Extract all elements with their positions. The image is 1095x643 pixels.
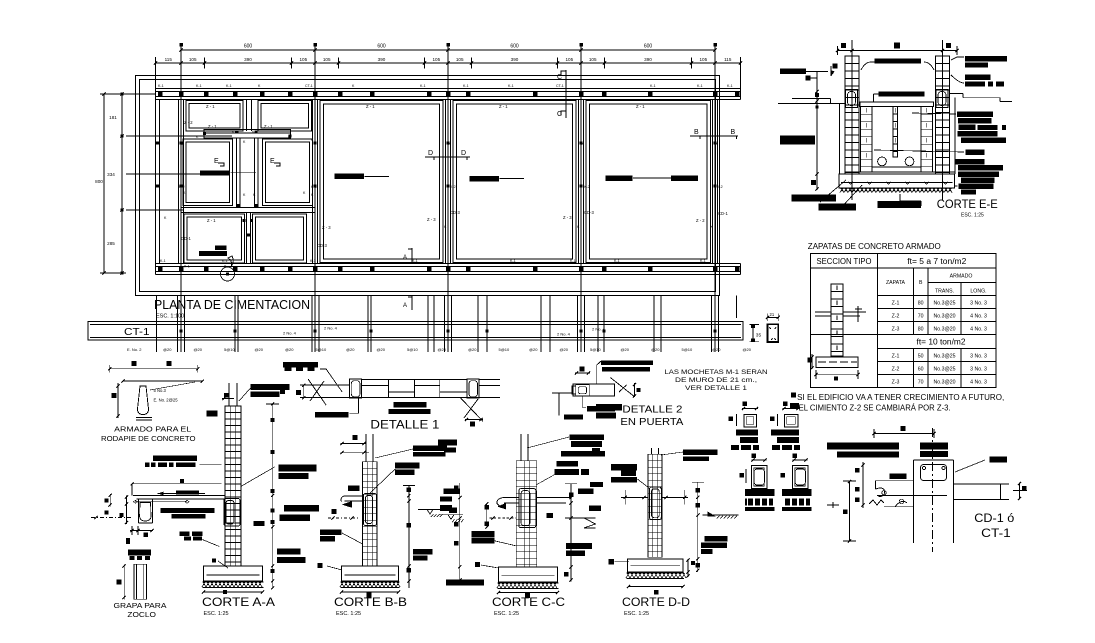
svg-text:RODAPIE DE CONCRETO: RODAPIE DE CONCRETO xyxy=(101,434,196,443)
svg-text:181: 181 xyxy=(109,115,117,120)
svg-text:115: 115 xyxy=(724,57,732,62)
svg-text:Z - 3: Z - 3 xyxy=(563,215,572,220)
svg-text:K-1: K-1 xyxy=(196,84,202,88)
corte AA rodapie spike xyxy=(140,503,151,522)
vertical dim line between B-B and C-C xyxy=(459,483,461,582)
cd-1 right bracket xyxy=(1019,483,1021,500)
corte AA bottom-mid labels xyxy=(180,531,190,536)
bay1 T wall horizontal xyxy=(204,130,291,139)
svg-text:No.3@25: No.3@25 xyxy=(934,301,956,307)
corte CC left labels xyxy=(471,531,494,537)
svg-text:ESC. 1:25: ESC. 1:25 xyxy=(204,611,229,617)
junction marks on axis walls K positions xyxy=(179,141,182,144)
svg-text:No.3@20: No.3@20 xyxy=(934,380,956,386)
axis lines thin xyxy=(180,44,182,352)
svg-text:K-1: K-1 xyxy=(184,265,190,269)
svg-text:ESC. 1:25: ESC. 1:25 xyxy=(336,611,361,617)
svg-text:A: A xyxy=(403,255,407,261)
corte BB level marks right xyxy=(418,509,442,511)
svg-text:5@10: 5@10 xyxy=(499,347,511,352)
svg-text:ESC. 1:25: ESC. 1:25 xyxy=(624,611,649,617)
corte DD junction cross dims xyxy=(621,496,648,498)
svg-text:CD-3: CD-3 xyxy=(317,243,327,248)
corte DD left marker xyxy=(608,559,614,565)
svg-text:CD-3: CD-3 xyxy=(450,210,460,215)
cd-1 center dashdot line xyxy=(932,428,934,552)
svg-text:@20: @20 xyxy=(194,347,203,352)
table row lines xyxy=(928,282,996,284)
cd-1 leader to label xyxy=(955,460,985,472)
corte BB footing xyxy=(341,566,398,581)
svg-text:No.3@20: No.3@20 xyxy=(934,313,956,319)
corte EE castillo blocks at ground xyxy=(846,90,858,108)
corte EE right pier above ground xyxy=(936,56,950,90)
CT-1 end beam section 21x35 xyxy=(768,324,779,342)
svg-text:5@10: 5@10 xyxy=(407,347,419,352)
svg-text:2 No. 4: 2 No. 4 xyxy=(557,332,571,337)
svg-text:390: 390 xyxy=(244,57,252,62)
svg-text:Z - 1: Z - 1 xyxy=(206,104,215,109)
svg-text:800: 800 xyxy=(95,179,103,184)
svg-text:CORTE C-C: CORTE C-C xyxy=(492,595,565,609)
svg-text:115: 115 xyxy=(165,57,173,62)
svg-text:@20: @20 xyxy=(438,347,447,352)
svg-text:ESC. 1:25: ESC. 1:25 xyxy=(961,213,984,219)
svg-text:Z - 3: Z - 3 xyxy=(427,217,436,222)
corte DD below dims xyxy=(629,586,684,588)
corte CC footing xyxy=(498,567,557,582)
corte EE piers below ground xyxy=(845,90,859,174)
section mark A-A in plan xyxy=(411,248,413,262)
svg-text:E: E xyxy=(270,158,275,165)
detalle 1 staggered courses xyxy=(361,385,388,387)
svg-text:GRAPA PARA: GRAPA PARA xyxy=(114,601,167,610)
svg-text:5@10: 5@10 xyxy=(316,347,328,352)
rodapie vertical dim xyxy=(117,383,119,418)
grapa dim line xyxy=(123,564,125,599)
rodapie armado detail dim lines xyxy=(110,368,198,370)
svg-text:CD-1 ó: CD-1 ó xyxy=(974,513,1014,525)
svg-text:EN PUERTA: EN PUERTA xyxy=(620,416,683,428)
svg-text:105: 105 xyxy=(699,57,707,62)
svg-text:K-1: K-1 xyxy=(508,84,514,88)
svg-text:K-2: K-2 xyxy=(584,185,590,189)
svg-text:2 No. 4: 2 No. 4 xyxy=(283,331,297,336)
svg-text:@20: @20 xyxy=(743,347,752,352)
svg-text:E: E xyxy=(214,158,219,165)
bay1 room mid-right xyxy=(263,139,313,206)
svg-text:C: C xyxy=(557,74,562,81)
corte AA slab mesh line xyxy=(135,501,187,503)
svg-text:3 No. 3: 3 No. 3 xyxy=(970,354,987,360)
svg-text:B: B xyxy=(919,280,923,286)
detalle 1 left dim xyxy=(303,385,305,399)
corte AA right dim line xyxy=(272,404,274,588)
svg-text:@20: @20 xyxy=(468,347,477,352)
svg-text:K-1: K-1 xyxy=(160,259,166,263)
detalle 2 right dim xyxy=(633,383,635,397)
svg-text:5@10: 5@10 xyxy=(682,347,694,352)
section mark D-D in plan xyxy=(425,156,470,158)
bottom footing band xyxy=(156,263,741,265)
corte AA vertical rebar above xyxy=(228,383,230,406)
top dimension row 600s xyxy=(181,49,715,51)
svg-text:CORTE D-D: CORTE D-D xyxy=(622,595,690,609)
svg-text:Z-3: Z-3 xyxy=(892,380,900,386)
detalle 2 top-left small dim xyxy=(575,372,590,374)
svg-text:600: 600 xyxy=(244,44,253,50)
svg-text:K-1: K-1 xyxy=(463,84,469,88)
svg-text:CD-3: CD-3 xyxy=(584,210,594,215)
corte DD castillo in column xyxy=(650,487,662,520)
bay1 room mid-left xyxy=(183,139,233,206)
corte CC top labels xyxy=(569,435,604,441)
svg-text:DETALLE 2: DETALLE 2 xyxy=(622,404,682,416)
CT-1 right end dim 35 xyxy=(752,325,754,342)
svg-text:VER DETALLE 1: VER DETALLE 1 xyxy=(685,385,747,392)
svg-text:K-2: K-2 xyxy=(717,185,723,189)
bay1 room top-left Z-1 xyxy=(186,101,243,132)
corte EE inner brick linings xyxy=(861,107,873,172)
svg-text:B: B xyxy=(731,129,736,136)
corte EE right leader lines xyxy=(951,57,964,60)
svg-text:4 No. 3: 4 No. 3 xyxy=(970,326,987,332)
junction marks bottom rooms xyxy=(242,219,245,222)
corte CC far-left label bars xyxy=(438,440,457,446)
svg-text:5@10: 5@10 xyxy=(224,347,236,352)
svg-text:105: 105 xyxy=(189,57,197,62)
bay1 wall horizontal y210 xyxy=(181,208,315,213)
corte BB left labels xyxy=(320,530,342,536)
svg-text:ZAPATAS DE CONCRETO ARMADO: ZAPATAS DE CONCRETO ARMADO xyxy=(808,242,941,251)
svg-text:K-1: K-1 xyxy=(650,84,656,88)
corte EE right label stack xyxy=(965,56,1007,62)
svg-text:4 No. 3: 4 No. 3 xyxy=(970,380,987,386)
svg-text:ARMADO PARA EL: ARMADO PARA EL xyxy=(114,425,191,434)
corte CC slab beak left xyxy=(504,497,519,499)
section mark B-B in plan xyxy=(690,135,738,137)
detail circle callout 7 xyxy=(221,267,235,281)
corte AA footing xyxy=(204,566,263,581)
svg-text:Z-3: Z-3 xyxy=(892,326,900,332)
svg-text:SI EL EDIFICIO VA A TENER CREC: SI EL EDIFICIO VA A TENER CRECIMIENTO A … xyxy=(797,393,1004,402)
CORTE B-B column xyxy=(362,462,377,566)
svg-text:CT-1: CT-1 xyxy=(305,84,313,88)
corte EE floor slab label xyxy=(879,92,925,97)
svg-text:CORTE E-E: CORTE E-E xyxy=(937,197,998,211)
cd-1 right beam lines xyxy=(954,483,1010,485)
detalle 1 wall strip band xyxy=(300,384,349,386)
svg-text:K-1: K-1 xyxy=(697,84,703,88)
svg-text:A: A xyxy=(403,303,407,309)
svg-text:4 No. 3: 4 No. 3 xyxy=(970,313,987,319)
cd-1 stirrup inside xyxy=(921,465,947,481)
svg-text:600: 600 xyxy=(510,44,519,50)
bay1 room bottom-left xyxy=(184,214,245,263)
svg-text:@20: @20 xyxy=(255,347,264,352)
svg-text:Z-2: Z-2 xyxy=(892,367,900,373)
svg-text:D: D xyxy=(461,150,466,157)
svg-text:CT-1: CT-1 xyxy=(556,84,564,88)
svg-text:70: 70 xyxy=(918,313,924,319)
svg-text:Z - 2: Z - 2 xyxy=(696,218,705,223)
corte EE big left label xyxy=(780,136,815,145)
corte EE left dim line xyxy=(816,72,818,190)
top footing band CT-1 xyxy=(156,88,741,90)
mocheta section M-1 b xyxy=(784,414,798,427)
svg-text:105: 105 xyxy=(299,57,307,62)
corte AA curb outline xyxy=(137,499,139,523)
corte EE footing xyxy=(839,174,955,188)
corte EE slab between piers xyxy=(860,102,934,107)
svg-text:105: 105 xyxy=(589,57,597,62)
corte BB floor slab left xyxy=(345,495,363,497)
svg-text:105: 105 xyxy=(432,57,440,62)
corte DD right lower labels xyxy=(704,536,727,542)
CORTE C-C column xyxy=(516,461,537,567)
CT-1 stirrup marks xyxy=(180,330,183,333)
svg-text:No.3@25: No.3@25 xyxy=(934,367,956,373)
svg-text:TRANS.: TRANS. xyxy=(935,289,954,295)
axis walls vertical xyxy=(178,100,180,264)
corte DD right dim line xyxy=(697,482,699,572)
svg-text:105: 105 xyxy=(323,57,331,62)
corte EE rebar circles xyxy=(878,157,887,166)
svg-text:@20: @20 xyxy=(285,347,294,352)
svg-text:ZAPATA: ZAPATA xyxy=(886,280,906,286)
svg-text:PLANTA DE CIMENTACION: PLANTA DE CIMENTACION xyxy=(154,297,310,312)
junction marks on T-wall xyxy=(203,132,206,135)
corte DD right footing dims xyxy=(687,559,689,577)
svg-text:390: 390 xyxy=(378,57,386,62)
svg-text:70: 70 xyxy=(918,380,924,386)
svg-text:Z-1: Z-1 xyxy=(892,354,900,360)
corte CC slab lines right of column xyxy=(537,497,571,499)
corte EE left pier above ground xyxy=(845,56,859,90)
cd-1 top dim xyxy=(874,433,934,435)
table column lines xyxy=(913,268,915,334)
corte AA left labels xyxy=(153,456,197,462)
detalle 2 top leader and labels xyxy=(597,361,602,384)
sub dimension row 115/105/390/105 xyxy=(156,62,741,64)
zapatas table frame xyxy=(811,254,997,388)
svg-text:21: 21 xyxy=(770,312,775,317)
corte AA ground dash line xyxy=(91,517,132,519)
corte DD lower labels xyxy=(596,404,622,411)
left dimension column xyxy=(121,94,123,273)
detalle 2 X mark xyxy=(610,378,634,397)
bay4 room Z-1 xyxy=(586,101,711,263)
svg-text:DETALLE 1: DETALLE 1 xyxy=(370,418,439,432)
mocheta section M-1 a xyxy=(744,414,757,427)
detalle 1 left small bars xyxy=(280,384,288,388)
detalle 2 bottom leader and label xyxy=(582,396,586,407)
bay2 room Z-1 xyxy=(320,101,443,263)
svg-text:Z - 1: Z - 1 xyxy=(636,104,645,109)
svg-text:3 No. 3: 3 No. 3 xyxy=(970,367,987,373)
svg-text:Z-1: Z-1 xyxy=(892,301,900,307)
left dim extension lines xyxy=(118,93,155,95)
svg-text:D: D xyxy=(428,150,433,157)
svg-text:CT-1: CT-1 xyxy=(981,528,1011,540)
detalle 2 en puerta drawing xyxy=(573,384,615,396)
corte CC below dims xyxy=(499,592,558,594)
corte CC mid-right marks xyxy=(578,489,594,495)
svg-text:No.3@20: No.3@20 xyxy=(934,326,956,332)
plan outer border xyxy=(136,76,720,296)
svg-text:ESC. 1:25: ESC. 1:25 xyxy=(494,611,519,617)
corte DD rebar top xyxy=(651,448,653,455)
svg-text:@20: @20 xyxy=(377,347,386,352)
svg-text:CD-1: CD-1 xyxy=(718,211,728,216)
corte CC right dim lines xyxy=(570,484,572,582)
CORTE D-D column xyxy=(648,454,662,557)
CT-1 foundation beam strip xyxy=(88,322,743,341)
svg-text:Z - 3: Z - 3 xyxy=(322,225,331,230)
svg-text:105: 105 xyxy=(565,57,573,62)
corte DD footing xyxy=(628,559,684,572)
corte EE top dim line xyxy=(838,50,958,52)
corte CC left dims xyxy=(486,503,488,528)
svg-text:K-1: K-1 xyxy=(420,84,426,88)
corte AA right labels xyxy=(279,465,317,472)
detalle 1 castillo block 2 xyxy=(467,379,479,398)
svg-text:Z - 1: Z - 1 xyxy=(366,104,375,109)
castillo section b xyxy=(792,466,808,489)
corte BB rebar top xyxy=(365,434,367,462)
corte EE trench bottom xyxy=(845,171,955,173)
svg-text:LONG.: LONG. xyxy=(970,289,986,295)
detalle 1 block1 leader and bar xyxy=(349,398,358,413)
cd-1 left dim lines xyxy=(849,481,851,542)
cd-1 beam outline xyxy=(913,460,915,543)
detalle 2 end block with castillo xyxy=(576,385,589,396)
door bars in plan xyxy=(200,171,230,176)
corte BB top labels xyxy=(413,446,447,452)
left outer wall xyxy=(155,100,157,264)
svg-text:390: 390 xyxy=(644,57,652,62)
bay3 room Z-1 xyxy=(453,101,576,263)
svg-text:80: 80 xyxy=(918,301,924,307)
svg-text:105: 105 xyxy=(456,57,464,62)
svg-text:DE MURO DE 21 cm.,: DE MURO DE 21 cm., xyxy=(675,377,757,384)
table seccion tipo drawing xyxy=(831,284,843,356)
svg-text:CORTE B-B: CORTE B-B xyxy=(334,595,407,609)
corte DD left labels xyxy=(611,464,637,471)
corte BB left dim marks xyxy=(332,509,337,514)
svg-text:EL CIMIENTO Z-2 SE CAMBIARÁ PO: EL CIMIENTO Z-2 SE CAMBIARÁ POR Z-3. xyxy=(799,404,951,413)
svg-text:@20: @20 xyxy=(163,347,172,352)
svg-text:B: B xyxy=(694,129,699,136)
svg-text:Z - 1: Z - 1 xyxy=(499,104,508,109)
table footing drawing xyxy=(816,357,858,368)
svg-text:@20: @20 xyxy=(529,347,538,352)
grapa para zoclo drawing xyxy=(128,550,151,556)
svg-text:CORTE A-A: CORTE A-A xyxy=(202,595,275,609)
svg-text:Z - 2: Z - 2 xyxy=(184,120,193,125)
svg-text:K-1: K-1 xyxy=(727,84,733,88)
corte EE center partition xyxy=(893,107,898,158)
detalle 1 X mark right xyxy=(461,398,483,421)
svg-text:@20: @20 xyxy=(560,347,569,352)
bay1 central wall bottom xyxy=(246,213,248,264)
corte BB right lower labels xyxy=(413,549,433,555)
svg-text:K-1: K-1 xyxy=(158,84,164,88)
detalle 1 center bottom bars xyxy=(394,402,427,407)
svg-text:E. No. 2: E. No. 2 xyxy=(127,347,142,352)
cd-1 inner black bar xyxy=(890,474,907,480)
corte DD top labels xyxy=(683,449,718,455)
corte EE ground lines right xyxy=(950,93,964,95)
bay1 room bottom-right xyxy=(253,214,307,263)
corte CC level beak right xyxy=(565,517,596,519)
CORTE A-A column xyxy=(225,406,241,566)
CT-1 end dim 21 xyxy=(767,316,780,318)
corte AA below footing dims xyxy=(204,591,263,593)
bay1 central corridor walls xyxy=(236,138,238,208)
svg-text:CT-1: CT-1 xyxy=(124,326,150,338)
corte BB top dims left xyxy=(340,443,366,445)
svg-text:35: 35 xyxy=(756,333,762,339)
svg-text:Z - 1: Z - 1 xyxy=(264,124,273,129)
svg-text:CD-1: CD-1 xyxy=(181,236,191,241)
svg-text:K-2: K-2 xyxy=(450,185,456,189)
svg-text:K-1: K-1 xyxy=(226,84,232,88)
corte EE trench walls xyxy=(839,103,841,174)
svg-text:3 No. 3: 3 No. 3 xyxy=(970,301,987,307)
bay1 room top-right Z-1 xyxy=(258,101,312,132)
corte EE bottom-left labels xyxy=(811,180,816,185)
detalle 1 notched label bar top-left xyxy=(283,362,318,368)
svg-text:60: 60 xyxy=(918,367,924,373)
corte AA below curb dims xyxy=(130,530,153,532)
corte EE pier centerlines xyxy=(851,40,853,200)
section mark C-C top xyxy=(565,70,567,118)
corte EE label left of piers xyxy=(780,69,806,75)
svg-text:ft= 10 ton/m2: ft= 10 ton/m2 xyxy=(917,338,966,347)
corte CC right lower labels xyxy=(566,543,592,549)
corte BB right dim line xyxy=(408,485,410,588)
corte AA arrow label xyxy=(176,490,199,494)
svg-text:ESC. 1:100: ESC. 1:100 xyxy=(156,314,184,320)
corte BB castillo in column xyxy=(364,494,377,526)
svg-text:E. No. 2@25: E. No. 2@25 xyxy=(154,398,179,403)
corte CC rebar top xyxy=(520,434,522,461)
svg-text:ft= 5 a 7 ton/m2: ft= 5 a 7 ton/m2 xyxy=(907,257,966,266)
cd-1 left slab profile xyxy=(876,480,914,482)
rodapie cone shape xyxy=(138,386,149,415)
svg-text:80: 80 xyxy=(918,326,924,332)
extension lines below plan to CT-1 strip xyxy=(156,296,158,353)
svg-text:LAS MOCHETAS M-1 SERAN: LAS MOCHETAS M-1 SERAN xyxy=(665,369,768,376)
corte EE label bar top middle xyxy=(875,59,922,64)
detalle 2 left leader xyxy=(552,392,572,394)
corte AA below-slab labels xyxy=(160,508,214,513)
corte AA castillo in column xyxy=(224,499,240,527)
svg-text:ZOCLO: ZOCLO xyxy=(127,610,156,619)
corte AA floor slab xyxy=(133,494,225,496)
corte EE ground lines left xyxy=(792,98,831,100)
svg-text:@20: @20 xyxy=(621,347,630,352)
corte AA left dim ticks xyxy=(126,496,128,524)
svg-text:334: 334 xyxy=(107,172,115,177)
svg-text:@20: @20 xyxy=(712,347,721,352)
anchor marks K-1 on bands xyxy=(158,92,163,97)
svg-text:ARMADO: ARMADO xyxy=(950,274,973,280)
svg-text:50: 50 xyxy=(918,354,924,360)
cd-1 corner detail top labels xyxy=(827,443,899,450)
svg-text:390: 390 xyxy=(511,57,519,62)
